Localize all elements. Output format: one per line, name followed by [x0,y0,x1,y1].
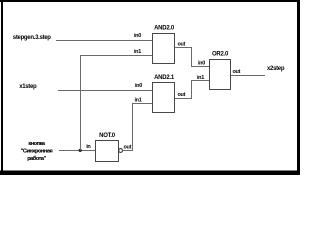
svg-text:"Синхронная: "Синхронная [21,148,53,154]
junction at button node [79,149,82,152]
net label кнопка "Синхронная работа" [21,141,53,162]
svg-text:AND2.1: AND2.1 [154,75,175,81]
AND gate AND2.0 body [153,34,175,64]
svg-text:in0: in0 [135,83,142,89]
wire button node up to AND2.0 in1 [81,56,153,151]
svg-text:работа": работа" [27,155,46,162]
svg-text:out: out [233,69,241,75]
wire stepgen.3.step to AND2.0 in0 [56,40,153,42]
AND gate AND2.1 body [153,83,175,113]
svg-text:кнопка: кнопка [28,141,46,147]
inverter bubble (NOT.0 output) [119,149,123,153]
svg-text:x2step: x2step [267,66,285,72]
svg-text:NOT.0: NOT.0 [99,133,116,139]
wire NOT.0 out to AND2.1 in1 [123,104,153,151]
wire x1step to AND2.1 in0 [58,90,153,92]
svg-text:in1: in1 [197,75,204,81]
svg-text:in0: in0 [198,60,205,66]
svg-text:in1: in1 [134,49,141,55]
wire AND2.1 out to OR2.0 in1 [175,81,210,99]
svg-text:out: out [178,42,186,48]
svg-text:x1step: x1step [19,84,37,90]
NOT gate NOT.0 body [96,141,119,162]
OR gate OR2.0 body [210,60,231,90]
svg-text:OR2.0: OR2.0 [212,52,229,58]
svg-text:in1: in1 [134,97,141,103]
svg-text:AND2.0: AND2.0 [154,25,175,31]
wire OR2.0 out to x2step [231,75,266,77]
svg-text:out: out [124,145,132,151]
svg-text:out: out [178,92,186,98]
svg-text:stepgen.3.step: stepgen.3.step [13,35,51,41]
wire AND2.0 out to OR2.0 in0 [175,48,210,67]
svg-text:in0: in0 [134,33,141,39]
wire кнопка to NOT.0 in [59,150,96,152]
